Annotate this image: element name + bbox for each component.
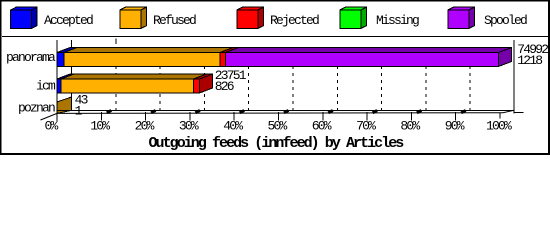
legend cube Spooled (purple) [448, 7, 475, 28]
svg-text:90%: 90% [445, 119, 465, 134]
svg-text:Rejected: Rejected [270, 13, 319, 28]
svg-text:poznan: poznan [18, 101, 55, 116]
svg-text:1218: 1218 [517, 53, 542, 68]
svg-text:70%: 70% [356, 119, 376, 134]
front baseline right-end depth diagonal [503, 110, 514, 112]
svg-text:icm: icm [36, 79, 56, 94]
svg-text:40%: 40% [223, 119, 243, 134]
legend cube Missing (green) [340, 7, 367, 28]
svg-text:Spooled: Spooled [484, 13, 527, 28]
front segments [57, 53, 64, 67]
outer border [0, 0, 550, 1]
svg-text:20%: 20% [135, 119, 155, 134]
legend cube Accepted (blue) [11, 7, 38, 28]
front baseline overshoot right of 100% [514, 111, 524, 113]
svg-text:0%: 0% [44, 119, 58, 134]
svg-text:Refused: Refused [153, 13, 196, 28]
front baseline [57, 112, 503, 115]
svg-text:80%: 80% [400, 119, 420, 134]
dashed gridlines 0%..90% (back plane) [71, 40, 73, 110]
legend cube Refused (orange) [120, 7, 147, 28]
svg-text:Outgoing feeds (innfeed) by Ar: Outgoing feeds (innfeed) by Articles [149, 135, 405, 152]
tick depth connectors [107, 110, 466, 112]
svg-text:panorama: panorama [6, 50, 56, 65]
right axis (100% back line) [513, 40, 515, 114]
left axis [56, 40, 58, 121]
tick 100% (front) [499, 112, 501, 118]
legend separator line [2, 36, 548, 38]
gridline 10% top dash [115, 39, 117, 45]
svg-text:100%: 100% [486, 119, 512, 134]
back baseline [57, 109, 514, 111]
bar row icm [57, 74, 213, 93]
svg-text:Accepted: Accepted [44, 13, 93, 28]
top face band (dark shades) [57, 48, 77, 53]
svg-text:10%: 10% [90, 119, 110, 134]
x axis labels [44, 119, 512, 134]
legend cube Rejected (red) [237, 7, 264, 28]
svg-text:60%: 60% [312, 119, 332, 134]
bar row panorama [57, 48, 512, 67]
bar row poznan (near-zero width, 3d extrusion only) [57, 97, 72, 113]
ticks 10%..90% (front) [101, 112, 455, 121]
axis depth tail at origin [41, 113, 58, 120]
svg-text:Missing: Missing [376, 13, 419, 28]
svg-text:826: 826 [215, 79, 234, 94]
svg-text:30%: 30% [179, 119, 199, 134]
right side face (spooled dark) [499, 48, 512, 67]
svg-text:50%: 50% [267, 119, 287, 134]
